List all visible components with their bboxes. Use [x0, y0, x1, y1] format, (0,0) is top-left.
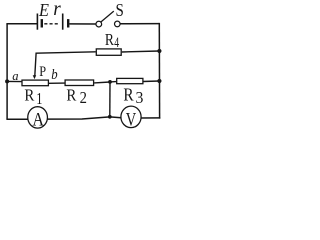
label a	[12, 69, 18, 83]
wire switch to top right corner	[120, 23, 159, 25]
wiper arrow of R1	[33, 75, 37, 79]
svg-text:R: R	[105, 31, 115, 50]
junction R4 / right wall	[157, 49, 161, 53]
ammeter A	[28, 107, 48, 130]
junction R2/R3 branch	[108, 80, 112, 84]
label R2	[66, 87, 76, 105]
svg-text:3: 3	[136, 87, 144, 107]
battery E r (two cells)	[37, 14, 69, 30]
svg-text:P: P	[39, 63, 46, 79]
svg-text:2: 2	[80, 89, 87, 107]
wire left wall	[6, 24, 8, 120]
wire bottom left	[6, 118, 27, 120]
svg-text:4: 4	[114, 34, 119, 50]
wire R3 to right wall	[143, 80, 160, 83]
svg-text:r: r	[53, 0, 61, 20]
wire junction to voltmeter	[110, 116, 121, 119]
potentiometer R1	[22, 80, 48, 86]
label E	[38, 1, 50, 21]
resistor R3	[117, 78, 143, 83]
resistor R2	[65, 80, 94, 86]
label R4	[105, 31, 115, 50]
wire R4 to right wall	[122, 51, 160, 52]
wire junction to R3	[110, 81, 116, 83]
svg-text:R: R	[123, 84, 134, 104]
wire R1 to R2	[49, 82, 65, 84]
svg-text:S: S	[116, 0, 124, 20]
junction left wall / middle row	[5, 79, 9, 83]
wire wiper branch to R4	[35, 52, 96, 76]
resistor R4	[96, 49, 121, 55]
svg-text:b: b	[51, 66, 58, 82]
switch S	[96, 11, 120, 27]
wire top left to battery	[6, 23, 37, 25]
label R1	[24, 87, 34, 105]
label P	[39, 63, 46, 79]
svg-text:V: V	[126, 109, 136, 130]
wire branch down to bottom	[109, 82, 111, 117]
svg-text:1: 1	[36, 90, 42, 108]
label R3	[123, 84, 134, 104]
label b	[51, 66, 58, 82]
label S	[116, 0, 124, 20]
wire voltmeter to bottom right corner	[141, 117, 160, 119]
wire right wall	[158, 23, 160, 119]
wire wall to R1	[7, 80, 22, 82]
wire ammeter to junction	[47, 117, 109, 119]
svg-text:E: E	[38, 1, 50, 21]
label r	[53, 0, 61, 20]
junction bottom wire	[108, 115, 112, 119]
voltmeter V	[121, 106, 141, 130]
wire R2 to R3	[94, 81, 110, 84]
svg-text:A: A	[32, 109, 44, 129]
svg-text:R: R	[66, 87, 76, 105]
svg-text:R: R	[24, 87, 34, 105]
junction R3 / right wall	[157, 79, 161, 83]
wire battery to switch	[69, 23, 96, 25]
